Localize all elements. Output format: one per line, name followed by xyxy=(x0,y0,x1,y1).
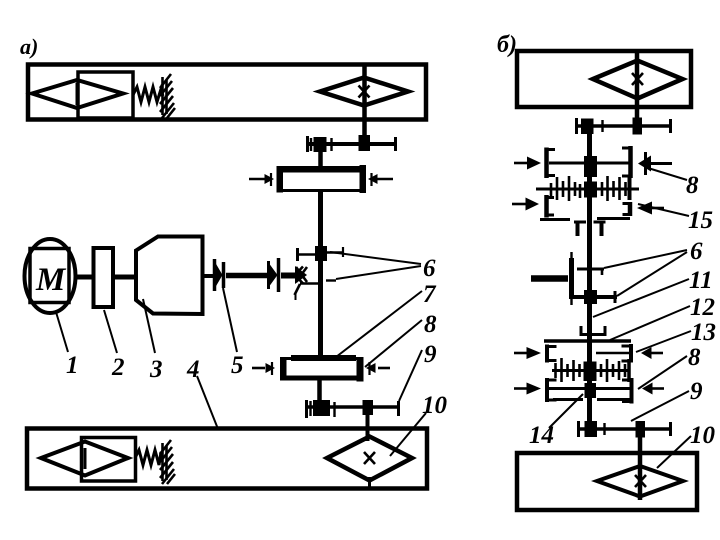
bearing bracket left row1 (b) xyxy=(547,148,556,179)
lower axle middle tick (b) xyxy=(603,423,605,435)
wheel shaft vertical top (a) xyxy=(362,64,367,144)
bearing bracket right rowB (b) xyxy=(622,378,632,404)
leader 9 (a) xyxy=(399,350,422,401)
svg-text:10: 10 xyxy=(690,422,716,449)
hub block on lower axle at shaft (b) xyxy=(585,421,598,437)
gear on upper axle (b) xyxy=(581,119,594,135)
svg-text:4: 4 xyxy=(186,356,200,383)
axle 9 upper (a) xyxy=(306,142,397,146)
leader 1 xyxy=(56,312,68,352)
bearing bracket left rowA (b) xyxy=(547,345,557,363)
row3 arrow left (b upper reducer) xyxy=(512,198,539,211)
leader 13b (b) xyxy=(636,331,691,352)
svg-text:9: 9 xyxy=(690,378,703,405)
pinion flank tick right xyxy=(330,138,332,151)
coupling lower left arrow xyxy=(252,362,275,375)
gear hub mesh row (b) xyxy=(584,182,597,198)
wheel shaft vertical bottom (a) xyxy=(366,415,370,441)
gear coupling lower body xyxy=(284,359,360,380)
svg-text:11: 11 xyxy=(689,267,713,294)
housing bottom line left (b upper reducer) xyxy=(540,218,570,221)
bevel input stub shaft (b) xyxy=(531,275,568,282)
frame rail bottom (b) xyxy=(517,453,697,510)
svg-text:a): a) xyxy=(20,34,38,59)
gear mesh row upper reducer (b) xyxy=(536,175,639,201)
bevel wheel lower plate (b) xyxy=(574,291,617,303)
buffer spring bottom-left xyxy=(135,450,163,465)
intermediate rough shaft xyxy=(226,273,268,279)
coupling upper right arrow xyxy=(368,173,393,186)
housing bottom left segment (b) xyxy=(553,398,583,401)
axle 9 lower (b) xyxy=(577,427,672,431)
drive wheel top-right cross mark xyxy=(359,86,370,98)
drive wheel 10 top-right (a): diamond xyxy=(320,78,408,106)
gear coupling lower thick bottom edge xyxy=(284,376,360,381)
bevel lower left tick xyxy=(295,292,297,300)
bevel gear upper plate left xyxy=(297,253,320,256)
axle lower left bearing tick xyxy=(305,400,308,418)
motor 1 (a): ellipse xyxy=(25,239,76,313)
hub block row1 on vertical shaft (b) xyxy=(584,156,597,177)
gear coupling upper (a): body xyxy=(281,168,362,191)
wheel shaft vertical top (b) xyxy=(635,51,640,126)
gear coupling upper thick top edge xyxy=(280,167,363,173)
drive wheel top (b): diamond xyxy=(593,61,683,99)
bevel pinion bottom tick (b) xyxy=(570,299,572,305)
gear coupling lower left flange xyxy=(280,357,287,381)
shaft rowB (b) xyxy=(549,387,631,390)
pinion lower flank tick left xyxy=(309,401,311,416)
upper axle middle tick (b) xyxy=(601,120,603,132)
axle (b) lower left tick xyxy=(577,421,580,437)
hub block rowB on vertical shaft (b) xyxy=(585,383,597,398)
bearing bracket left rowB (b) xyxy=(547,378,557,402)
leader 6b (a) xyxy=(336,266,421,279)
svg-text:9: 9 xyxy=(424,341,437,368)
svg-text:13: 13 xyxy=(691,319,716,346)
leader 11 (b) xyxy=(593,279,689,317)
clutch 5 left half xyxy=(215,259,224,291)
axle 9 upper (b) xyxy=(575,124,672,128)
clutch 5 right half xyxy=(269,258,279,292)
leader 9 (b) xyxy=(631,391,689,421)
frame rail top (a) xyxy=(28,65,426,120)
shaft row1 (b) xyxy=(549,162,629,165)
row B arrow right (b) xyxy=(642,383,664,395)
coupling 2 (a) xyxy=(94,248,114,307)
leader 14 (b) xyxy=(549,394,583,428)
row A arrow left lower gearbox (b) xyxy=(514,347,541,359)
housing bottom line right (b upper reducer) xyxy=(597,217,630,220)
input row arrow left (b upper reducer) xyxy=(514,157,541,170)
shaft motor coupling to drum xyxy=(113,275,136,280)
brake drum 3 (a) xyxy=(136,237,203,315)
wheel hub block on lower axle xyxy=(363,400,374,415)
gear mesh row lower gearbox (b) xyxy=(552,358,630,382)
axle upper right bearing tick xyxy=(394,137,397,151)
bevel gear upper plate right xyxy=(327,251,344,254)
top bracket lower gearbox (b) xyxy=(580,326,607,335)
bearing bracket left row3 (b) xyxy=(547,195,555,218)
wheel hub block on upper axle xyxy=(359,135,371,151)
wheel bottom stub tick xyxy=(368,477,371,488)
frame rail top (b) xyxy=(517,51,691,107)
gear coupling upper left flange xyxy=(277,166,284,193)
idler wheel top-left axis line xyxy=(76,83,79,105)
wheel hub block upper (b) xyxy=(633,118,643,135)
bevel pinion cone marks 6 xyxy=(295,267,308,296)
pinion flank tick left xyxy=(310,138,312,151)
svg-text:6: 6 xyxy=(423,255,436,282)
leader 5 xyxy=(223,288,237,352)
svg-text:6: 6 xyxy=(690,238,703,265)
row B arrow left lower gearbox (b) xyxy=(514,383,541,395)
svg-text:8: 8 xyxy=(686,172,699,199)
drive wheel bottom (b) cross mark xyxy=(635,475,646,487)
leader 2 xyxy=(104,310,117,353)
axle (b) upper right tick xyxy=(669,119,672,133)
row A arrow right (b) xyxy=(641,347,663,359)
motor inner box xyxy=(30,249,69,303)
bevel pinion bar (b) xyxy=(569,258,574,299)
svg-text:7: 7 xyxy=(423,281,437,308)
leader 10 (a) xyxy=(390,413,426,456)
stub shaft to upper coupling xyxy=(318,144,323,168)
leader 7 (a) xyxy=(336,291,422,357)
wall support bottom-left xyxy=(160,440,175,484)
leader 6a (a) xyxy=(330,252,421,264)
bevel hub block (b) xyxy=(584,290,597,304)
vertical shaft 7 (a) xyxy=(318,191,323,357)
bevel pinion top tick (b) xyxy=(570,252,572,258)
coupling half right row1 (b) xyxy=(638,152,672,175)
axle 9 lower (a) xyxy=(305,405,400,409)
drum output shaft xyxy=(202,274,215,278)
leader 6a (b) xyxy=(604,250,687,268)
gear coupling lower (a): thick top gear bar xyxy=(291,355,356,361)
shaft bearing bracket below reducer left xyxy=(574,222,586,236)
bearing bracket right rowA (b) xyxy=(622,344,632,363)
svg-text:2: 2 xyxy=(111,354,125,381)
vertical shaft (b) xyxy=(587,126,592,429)
axle upper left bearing tick xyxy=(306,136,309,152)
svg-text:12: 12 xyxy=(690,294,715,321)
housing bottom right segment (b) xyxy=(597,398,630,401)
pinion gear on lower axle xyxy=(313,400,330,416)
svg-text:8: 8 xyxy=(424,311,437,338)
buffer spring top-left xyxy=(133,87,163,102)
leader 3 xyxy=(143,299,155,353)
svg-text:14: 14 xyxy=(529,422,554,449)
drive wheel bottom-right cross mark xyxy=(364,452,375,464)
motor output shaft xyxy=(75,275,94,280)
bearing bracket right row3 (b) xyxy=(623,202,631,216)
axle (b) lower right tick xyxy=(669,422,672,436)
buffer box bottom-left xyxy=(82,438,136,482)
svg-text:5: 5 xyxy=(231,352,244,379)
idler wheel bottom-left (a): diamond xyxy=(41,442,128,476)
wheel shaft vertical bottom (b) xyxy=(638,429,643,500)
shaft into bevel junction xyxy=(281,273,303,279)
wall support top-left xyxy=(160,74,175,118)
leader 8 (a) xyxy=(365,320,422,367)
wheel hub block lower (b) xyxy=(636,421,646,438)
row3 arrow right (b) xyxy=(637,202,664,215)
svg-text:б): б) xyxy=(497,32,517,58)
axle (b) upper left tick xyxy=(575,118,578,134)
axle lower right bearing tick xyxy=(397,401,400,416)
drive wheel 10 bottom-right (a): diamond xyxy=(327,437,412,481)
bearing bracket right row1 (b) xyxy=(622,146,631,178)
svg-text:3: 3 xyxy=(149,356,163,383)
buffer box top-left xyxy=(78,72,133,118)
pinion gear on upper axle xyxy=(314,137,327,152)
coupling upper left arrow xyxy=(249,173,274,186)
leader 13 top (b) xyxy=(638,204,689,216)
drive wheel bottom (b): diamond xyxy=(597,466,683,497)
stub shaft to lower axle xyxy=(317,379,322,407)
bevel upper right end tick xyxy=(342,247,344,257)
gear coupling lower right flange xyxy=(357,357,364,382)
bevel gear hub on shaft 7 xyxy=(315,246,327,261)
bevel gear lower plate right xyxy=(326,279,336,281)
svg-text:15: 15 xyxy=(688,207,713,234)
svg-text:1: 1 xyxy=(66,352,79,379)
bevel pinion cone fill xyxy=(295,266,307,284)
frame rail bottom (a) xyxy=(27,429,427,489)
bevel gear lower plate left xyxy=(300,282,321,285)
shaft bearing bracket below reducer right xyxy=(594,222,606,236)
leader 8b (b) xyxy=(638,356,687,389)
bevel wheel upper plate (b) xyxy=(577,269,604,275)
bevel gear upper edge bar xyxy=(296,248,299,261)
leader 8 top (b) xyxy=(648,168,687,180)
leader 12 (b) xyxy=(610,306,690,340)
drive wheel top (b) cross mark xyxy=(632,73,643,85)
idler wheel bottom-left axis line xyxy=(84,448,87,469)
coupling lower right arrow xyxy=(366,362,390,375)
svg-text:8: 8 xyxy=(688,344,701,371)
leader 6b (b) xyxy=(617,252,687,296)
svg-text:M: M xyxy=(35,262,67,298)
gear coupling upper right flange xyxy=(360,165,367,193)
leader 10 (b) xyxy=(657,436,691,468)
svg-text:10: 10 xyxy=(422,392,448,419)
shaft rowA right segment (b) xyxy=(596,352,631,355)
pinion lower flank tick right xyxy=(333,402,335,417)
gear hub mesh row lower (b) xyxy=(584,362,597,382)
idler wheel top-left (a): diamond xyxy=(32,80,123,108)
leader 4 xyxy=(197,376,218,429)
housing top lower gearbox (b) xyxy=(544,339,631,343)
